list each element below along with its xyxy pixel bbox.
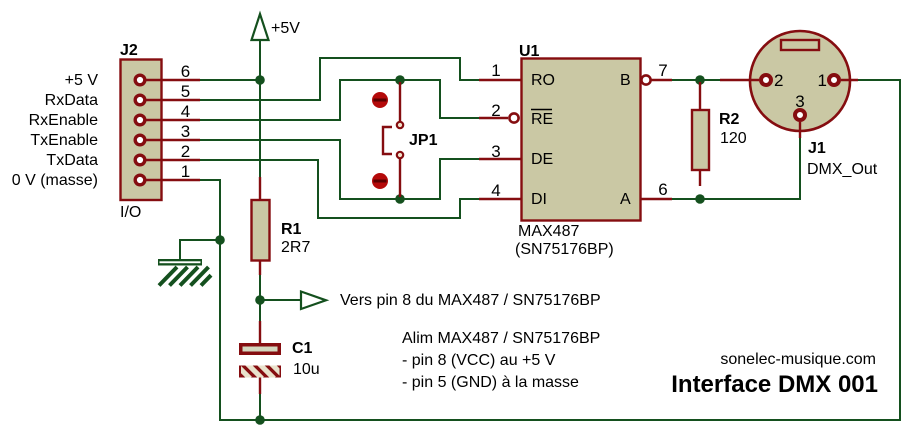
svg-text:R1: R1 [281,221,302,238]
wire net B [671,79,720,81]
svg-text:4: 4 [491,181,500,200]
J1 pin 1 ring [829,75,839,85]
svg-text:0 V (masse): 0 V (masse) [12,172,98,189]
jumper JP1 [372,82,438,197]
svg-text:DMX_Out: DMX_Out [807,161,878,178]
svg-text:TxData: TxData [46,152,98,169]
U1 pin B bubble [641,75,650,84]
svg-text:3: 3 [491,142,500,161]
svg-text:DI: DI [531,191,547,208]
svg-text:RO: RO [531,72,555,89]
junction node JP1 top [395,75,405,85]
arrow Vers pin 8 [301,292,326,310]
connector J1 DMX_Out [720,31,878,178]
resistor R2 [692,82,747,186]
J2 pin numbers [181,62,190,181]
svg-text:1: 1 [181,162,190,181]
svg-text:6: 6 [658,180,667,199]
svg-text:2R7: 2R7 [281,239,310,256]
svg-text:7: 7 [658,61,667,80]
power +5V symbol [252,14,301,40]
svg-text:Vers pin 8 du MAX487 / SN75176: Vers pin 8 du MAX487 / SN75176BP [340,292,601,309]
junction node +5V/pin6 [255,75,265,85]
U1 pin 4 stub [479,198,521,200]
connector J2 [120,42,162,221]
svg-text:Alim MAX487 / SN75176BP: Alim MAX487 / SN75176BP [402,330,600,347]
U1 pin 2 stub [479,117,508,119]
svg-text:1: 1 [818,71,827,90]
wire arrow branch [260,299,301,301]
wire net 0V masse [200,80,900,420]
ground [158,259,211,286]
svg-text:1: 1 [491,61,500,80]
J2 pin stubs [146,80,200,180]
U1 pin labels [531,72,631,208]
J1 pin 3 ring [795,110,805,120]
JP1 pad bottom [372,173,388,189]
svg-text:RxEnable: RxEnable [29,112,98,129]
svg-text:J1: J1 [808,140,826,157]
svg-text:U1: U1 [519,43,540,60]
svg-text:3: 3 [181,122,190,141]
wire net TxEnable [200,140,480,199]
svg-text:RE: RE [531,111,553,128]
svg-text:10u: 10u [293,361,320,378]
svg-text:- pin 8 (VCC) au +5 V: - pin 8 (VCC) au +5 V [402,352,556,369]
svg-text:5: 5 [181,82,190,101]
svg-text:- pin 5 (GND) à la masse: - pin 5 (GND) à la masse [402,374,579,391]
junction node JP1 bottom [395,194,405,204]
svg-text:+5 V: +5 V [65,72,99,89]
JP1 bracket [383,127,392,154]
U1 pin A stub [641,198,672,200]
JP1 pin circle top [397,122,403,128]
resistor R1 [252,177,311,275]
U1 pin B stub [651,79,672,81]
U1 RE overline [531,109,552,111]
junction node R2 top [695,75,705,85]
J1 pin 2 ring [761,75,771,85]
svg-text:sonelec-musique.com: sonelec-musique.com [720,351,876,368]
J1 pin 3 stub [799,122,801,138]
wire net TxData [200,160,480,218]
svg-text:Interface DMX 001: Interface DMX 001 [671,371,878,398]
svg-text:RxData: RxData [45,92,98,109]
svg-text:R2: R2 [719,111,740,128]
wire net +5V vertical [259,40,261,80]
svg-text:J2: J2 [120,42,138,59]
svg-text:3: 3 [795,92,804,111]
svg-text:C1: C1 [292,340,313,357]
wire C1 bottom to rail [259,394,261,420]
JP1 pin circle bottom [397,152,403,158]
svg-text:MAX487: MAX487 [518,223,579,240]
U1 pin numbers [491,61,667,200]
svg-text:2: 2 [774,71,783,90]
wire ground branch [180,240,220,259]
wire net +5V down to R1 [259,82,261,177]
J2 pin circles [135,75,145,185]
svg-text:B: B [620,72,631,89]
J1 pin 2 stub [720,79,759,81]
wire net A [671,138,800,199]
wire net +5V pin6 row [200,79,260,81]
svg-text:(SN75176BP): (SN75176BP) [515,241,614,258]
J1 pin 1 stub [841,79,858,81]
svg-text:120: 120 [720,130,747,147]
svg-text:DE: DE [531,151,553,168]
J2 signal labels [12,72,99,189]
svg-text:2: 2 [491,101,500,120]
svg-text:A: A [620,191,631,208]
U1 pin 3 stub [479,158,521,160]
capacitor C1 [234,321,320,394]
svg-text:I/O: I/O [120,204,141,221]
junction node R2 bottom [695,194,705,204]
JP1 pad top [372,92,388,108]
junction node ground branch [215,235,225,245]
wire R1 bottom to C1 [259,275,261,321]
JP1 wire bottom pin [399,159,401,197]
svg-text:6: 6 [181,62,190,81]
wire net RxEnable [200,80,480,120]
wire net RxData [200,58,480,100]
junction node arrow [255,295,265,305]
svg-text:4: 4 [181,102,190,121]
svg-text:JP1: JP1 [409,132,438,149]
op IC U1 MAX487 [515,43,641,258]
U1 pin 1 stub [479,79,521,81]
svg-text:2: 2 [181,142,190,161]
U1 pin 2 bubble [509,113,518,122]
JP1 wire top pin [399,82,401,121]
svg-text:+5V: +5V [271,20,300,37]
junction node C1 rail [255,415,265,425]
svg-text:TxEnable: TxEnable [30,132,98,149]
